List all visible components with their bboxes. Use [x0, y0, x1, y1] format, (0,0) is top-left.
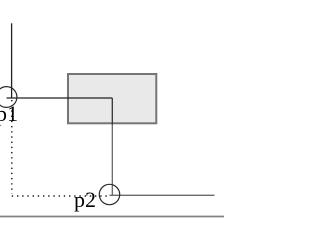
- wire: horizontal from node p1 to corner: [7, 97, 113, 99]
- node p2 circle: [99, 184, 119, 204]
- label p2: [74, 189, 96, 211]
- node p1 circle: [0, 87, 17, 108]
- baseline rule at bottom: [0, 216, 224, 218]
- wire: horizontal from node p2 to the right: [110, 194, 215, 196]
- dotted guide: vertical from p1 down: [11, 100, 13, 194]
- block (shaded rectangle): [68, 74, 156, 123]
- wire: vertical continuing down to node p2: [111, 125, 113, 196]
- wire: vertical stub above node p1: [11, 23, 13, 98]
- label p1: [0, 103, 18, 125]
- dotted guide: horizontal to p2: [12, 195, 108, 197]
- wire: vertical from corner down through block bottom: [111, 98, 113, 125]
